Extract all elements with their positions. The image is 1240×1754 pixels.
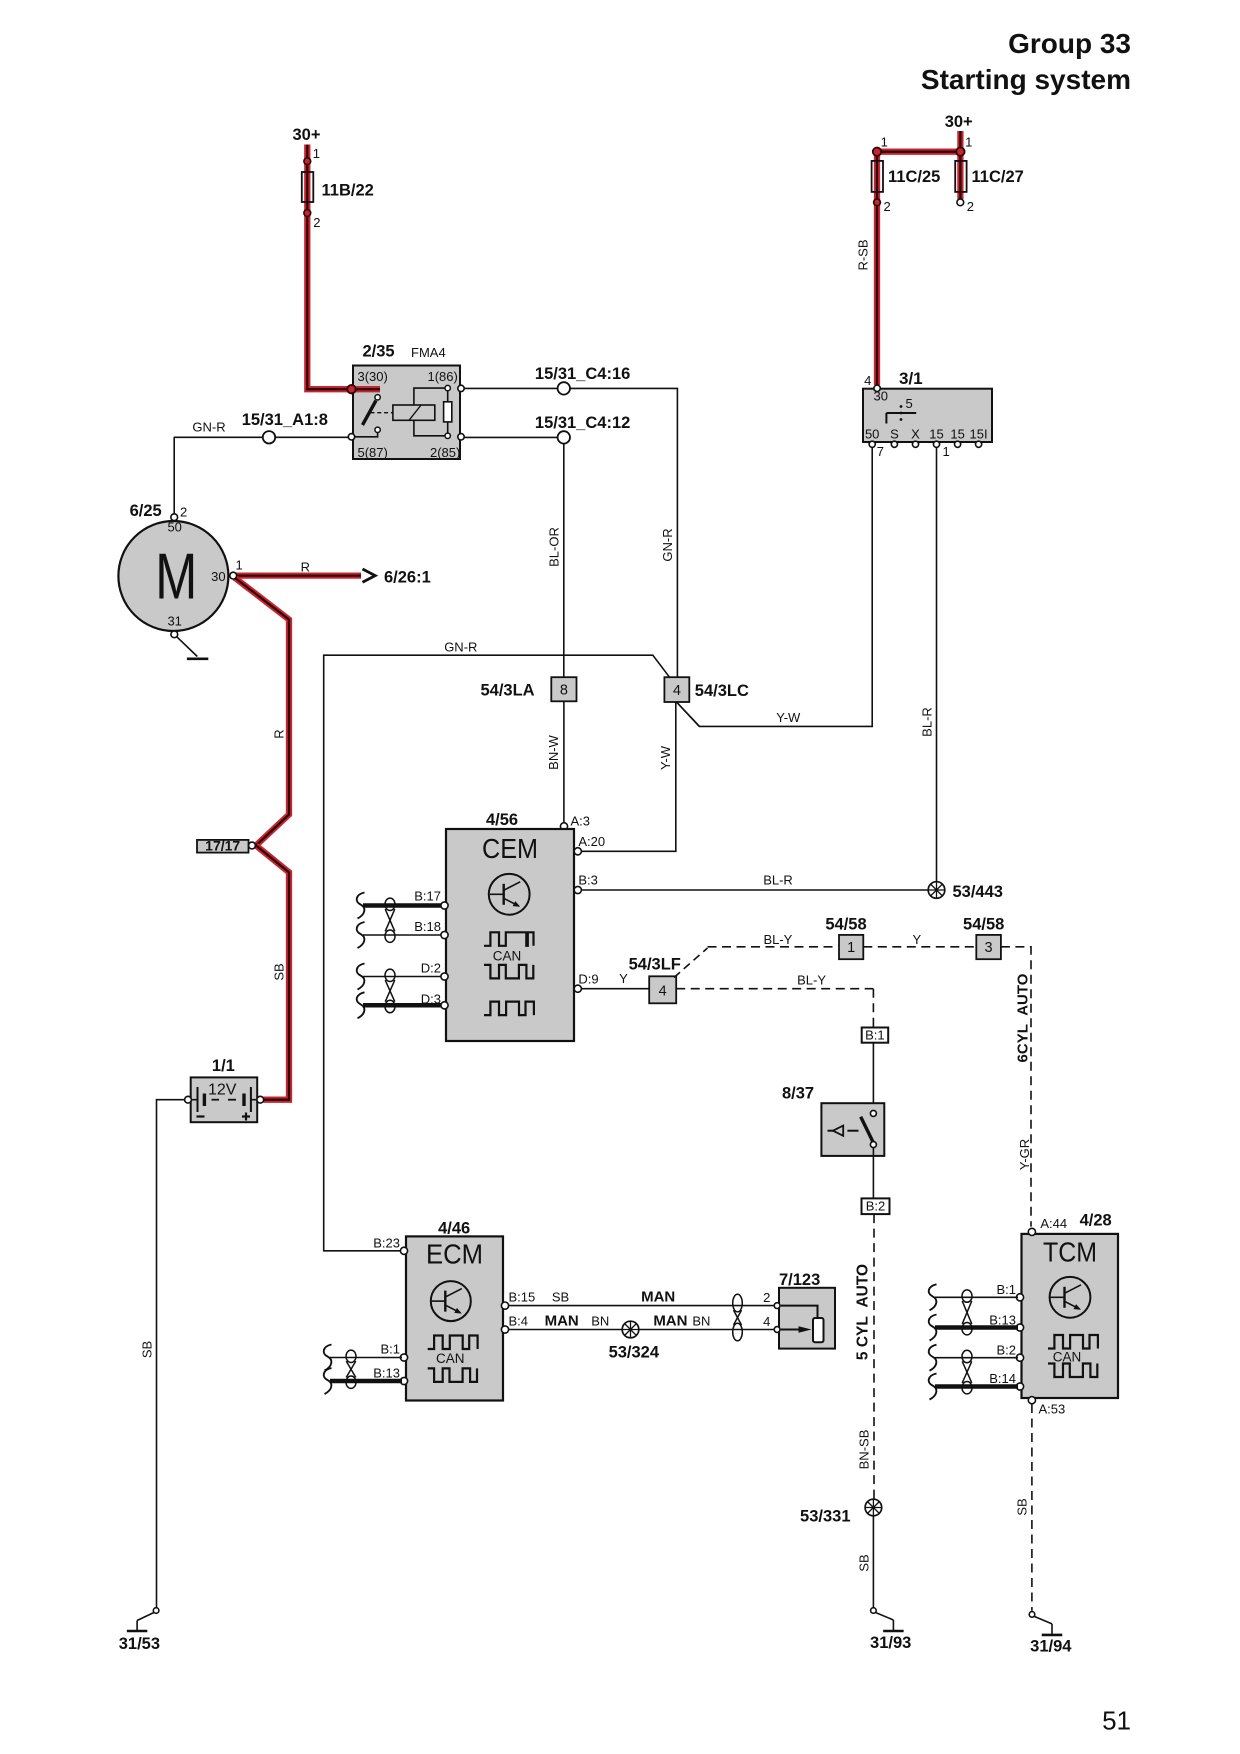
svg-text:2: 2 — [884, 199, 891, 214]
svg-text:54/58: 54/58 — [825, 916, 866, 934]
svg-text:4: 4 — [864, 373, 871, 388]
svg-text:SB: SB — [271, 963, 286, 980]
svg-text:1/1: 1/1 — [212, 1057, 235, 1075]
svg-text:15I: 15I — [970, 427, 988, 442]
svg-text:B:4: B:4 — [509, 1314, 529, 1329]
svg-text:11C/27: 11C/27 — [972, 168, 1024, 186]
svg-text:B:1: B:1 — [996, 1282, 1016, 1297]
svg-text:Y-GR: Y-GR — [1017, 1139, 1032, 1170]
svg-text:B:3: B:3 — [578, 873, 598, 888]
svg-text:31/53: 31/53 — [119, 1635, 160, 1653]
svg-text:BN-SB: BN-SB — [856, 1430, 871, 1470]
svg-text:S: S — [890, 427, 899, 442]
svg-text:54/3LF: 54/3LF — [629, 956, 681, 974]
svg-text:B:15: B:15 — [509, 1290, 536, 1305]
svg-text:A:3: A:3 — [571, 814, 591, 829]
svg-text:FMA4: FMA4 — [411, 345, 446, 360]
svg-text:1: 1 — [881, 135, 888, 150]
svg-text:CAN: CAN — [493, 948, 522, 963]
svg-text:BL-R: BL-R — [919, 707, 934, 737]
svg-text:D:3: D:3 — [421, 992, 441, 1007]
svg-text:A:44: A:44 — [1040, 1216, 1067, 1231]
svg-text:1: 1 — [847, 940, 855, 956]
svg-text:5 CYL AUTO: 5 CYL AUTO — [855, 1264, 872, 1360]
svg-text:B:1: B:1 — [865, 1028, 885, 1043]
svg-text:Y: Y — [619, 971, 628, 986]
svg-text:GN-R: GN-R — [192, 420, 225, 435]
svg-text:6CYL AUTO: 6CYL AUTO — [1015, 973, 1032, 1062]
svg-text:15: 15 — [929, 427, 943, 442]
svg-text:SB: SB — [857, 1554, 872, 1571]
svg-text:30+: 30+ — [945, 113, 973, 131]
svg-text:TCM: TCM — [1043, 1237, 1097, 1268]
svg-text:4: 4 — [763, 1314, 770, 1329]
svg-text:SB: SB — [1014, 1498, 1029, 1515]
svg-text:B:14: B:14 — [989, 1371, 1016, 1386]
svg-text:12V: 12V — [208, 1082, 237, 1099]
svg-text:CAN: CAN — [436, 1351, 465, 1366]
svg-text:Starting system: Starting system — [921, 64, 1131, 95]
svg-text:BL-Y: BL-Y — [797, 973, 826, 988]
svg-text:53/324: 53/324 — [609, 1344, 660, 1362]
svg-text:51: 51 — [1102, 1706, 1131, 1736]
svg-text:M: M — [155, 540, 197, 613]
svg-text:30+: 30+ — [293, 126, 321, 144]
svg-text:Y: Y — [912, 932, 921, 947]
svg-text:54/3LA: 54/3LA — [480, 682, 534, 700]
svg-text:B:2: B:2 — [996, 1342, 1016, 1357]
svg-text:MAN: MAN — [653, 1313, 687, 1330]
svg-text:SB: SB — [552, 1290, 569, 1305]
svg-text:B:13: B:13 — [373, 1366, 400, 1381]
svg-text:30: 30 — [211, 569, 225, 584]
svg-text:GN-R: GN-R — [444, 640, 477, 655]
svg-text:2/35: 2/35 — [363, 343, 395, 361]
svg-text:11C/25: 11C/25 — [888, 168, 940, 186]
svg-text:3/1: 3/1 — [899, 369, 923, 388]
svg-text:5(87): 5(87) — [358, 445, 388, 460]
svg-text:6/26:1: 6/26:1 — [384, 569, 431, 587]
svg-text:BN: BN — [591, 1314, 609, 1329]
svg-text:15/31_A1:8: 15/31_A1:8 — [242, 411, 328, 429]
svg-text:53/331: 53/331 — [800, 1508, 850, 1526]
svg-text:R: R — [271, 729, 286, 738]
svg-text:A:20: A:20 — [578, 834, 605, 849]
svg-text:Y-W: Y-W — [658, 745, 673, 770]
svg-text:Y-W: Y-W — [776, 710, 801, 725]
svg-text:2(85): 2(85) — [430, 445, 460, 460]
svg-text:X: X — [911, 427, 920, 442]
svg-text:BL-OR: BL-OR — [546, 527, 561, 567]
svg-text:MAN: MAN — [641, 1289, 675, 1306]
svg-text:Group 33: Group 33 — [1008, 28, 1131, 59]
svg-text:B:1: B:1 — [380, 1342, 400, 1357]
svg-text:B:18: B:18 — [414, 919, 441, 934]
svg-text:31: 31 — [167, 614, 181, 629]
svg-text:1: 1 — [965, 135, 972, 150]
svg-text:7: 7 — [877, 444, 884, 459]
svg-text:54/58: 54/58 — [963, 916, 1004, 934]
svg-text:2: 2 — [313, 215, 320, 230]
svg-text:1: 1 — [313, 146, 320, 161]
svg-text:50: 50 — [865, 427, 879, 442]
svg-text:4/46: 4/46 — [438, 1220, 470, 1238]
svg-text:1(86): 1(86) — [428, 369, 458, 384]
svg-text:R: R — [301, 560, 310, 575]
svg-text:CAN: CAN — [1053, 1349, 1082, 1364]
svg-text:1: 1 — [236, 558, 243, 573]
svg-text:B:17: B:17 — [414, 889, 441, 904]
svg-text:BN: BN — [692, 1314, 710, 1329]
svg-text:A:53: A:53 — [1039, 1402, 1066, 1417]
svg-text:CEM: CEM — [482, 833, 538, 864]
svg-text:15/31_C4:16: 15/31_C4:16 — [535, 365, 630, 383]
svg-text:B:13: B:13 — [989, 1312, 1016, 1327]
svg-text:7/123: 7/123 — [779, 1271, 820, 1289]
svg-text:4/56: 4/56 — [486, 811, 518, 829]
svg-text:2: 2 — [180, 505, 187, 520]
svg-text:SB: SB — [139, 1341, 154, 1358]
svg-text:31/93: 31/93 — [870, 1634, 911, 1652]
svg-text:15: 15 — [950, 427, 964, 442]
svg-text:2: 2 — [763, 1290, 770, 1305]
svg-text:50: 50 — [167, 520, 181, 535]
svg-text:31/94: 31/94 — [1030, 1638, 1072, 1656]
svg-text:BN-W: BN-W — [546, 734, 561, 769]
svg-text:D:9: D:9 — [578, 972, 598, 987]
svg-text:BL-Y: BL-Y — [763, 932, 792, 947]
svg-text:R-SB: R-SB — [855, 239, 870, 270]
svg-text:4: 4 — [673, 683, 681, 699]
svg-text:3: 3 — [985, 940, 993, 956]
svg-text:B:2: B:2 — [866, 1199, 886, 1214]
svg-text:8: 8 — [560, 683, 568, 699]
svg-text:53/443: 53/443 — [953, 883, 1003, 901]
svg-text:1: 1 — [943, 444, 950, 459]
svg-text:4/28: 4/28 — [1080, 1212, 1112, 1230]
svg-text:BL-R: BL-R — [763, 873, 793, 888]
svg-text:ECM: ECM — [426, 1239, 483, 1270]
svg-text:54/3LC: 54/3LC — [695, 682, 749, 700]
svg-text:6/25: 6/25 — [130, 502, 162, 520]
svg-text:MAN: MAN — [545, 1313, 579, 1330]
svg-text:3(30): 3(30) — [358, 369, 388, 384]
svg-text:B:23: B:23 — [373, 1236, 400, 1251]
svg-text:D:2: D:2 — [421, 961, 441, 976]
svg-text:8/37: 8/37 — [782, 1085, 814, 1103]
svg-text:17/17: 17/17 — [205, 838, 240, 854]
svg-text:GN-R: GN-R — [660, 528, 675, 561]
svg-text:4: 4 — [659, 984, 667, 1000]
svg-text:5: 5 — [906, 396, 913, 411]
svg-text:2: 2 — [967, 199, 974, 214]
svg-text:15/31_C4:12: 15/31_C4:12 — [535, 414, 630, 432]
svg-text:11B/22: 11B/22 — [322, 182, 374, 200]
svg-text:30: 30 — [874, 389, 888, 404]
